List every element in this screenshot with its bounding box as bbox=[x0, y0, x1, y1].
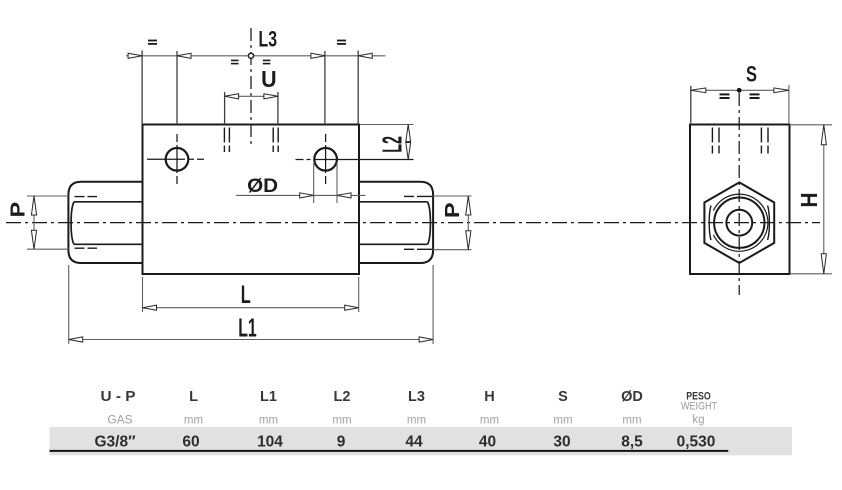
svg-text:L3: L3 bbox=[408, 389, 425, 405]
svg-text:L1: L1 bbox=[260, 389, 277, 405]
svg-text:GAS: GAS bbox=[107, 413, 132, 427]
svg-text:mm: mm bbox=[407, 415, 426, 427]
svg-text:ØD: ØD bbox=[247, 175, 278, 197]
svg-text:60: 60 bbox=[182, 434, 199, 451]
svg-text:U: U bbox=[261, 66, 277, 92]
svg-text:L: L bbox=[241, 281, 251, 309]
svg-text:L3: L3 bbox=[259, 27, 278, 52]
svg-text:ØD: ØD bbox=[621, 389, 643, 405]
svg-text:L1: L1 bbox=[238, 312, 257, 342]
svg-text:S: S bbox=[558, 389, 568, 405]
svg-text:P: P bbox=[8, 202, 30, 218]
svg-text:U - P: U - P bbox=[101, 389, 136, 405]
svg-text:9: 9 bbox=[337, 434, 346, 451]
svg-text:30: 30 bbox=[553, 434, 570, 451]
svg-text:mm: mm bbox=[622, 415, 641, 427]
svg-text:mm: mm bbox=[184, 415, 203, 427]
svg-text:mm: mm bbox=[259, 415, 278, 427]
svg-text:104: 104 bbox=[257, 434, 283, 451]
svg-text:L2: L2 bbox=[376, 136, 407, 153]
svg-text:mm: mm bbox=[480, 415, 499, 427]
svg-text:mm: mm bbox=[553, 415, 572, 427]
svg-text:L2: L2 bbox=[334, 389, 351, 405]
svg-text:mm: mm bbox=[332, 415, 351, 427]
svg-text:S: S bbox=[746, 62, 757, 87]
svg-text:0,530: 0,530 bbox=[677, 434, 716, 451]
svg-text:G3/8″: G3/8″ bbox=[94, 434, 136, 451]
svg-text:P: P bbox=[442, 202, 464, 218]
svg-text:8,5: 8,5 bbox=[621, 434, 643, 451]
svg-text:WEIGHT: WEIGHT bbox=[681, 401, 717, 413]
svg-text:kg: kg bbox=[692, 414, 704, 426]
svg-text:H: H bbox=[484, 389, 494, 405]
svg-text:L: L bbox=[189, 389, 198, 405]
svg-text:H: H bbox=[796, 193, 822, 208]
svg-text:40: 40 bbox=[479, 434, 496, 451]
svg-text:44: 44 bbox=[405, 434, 423, 451]
